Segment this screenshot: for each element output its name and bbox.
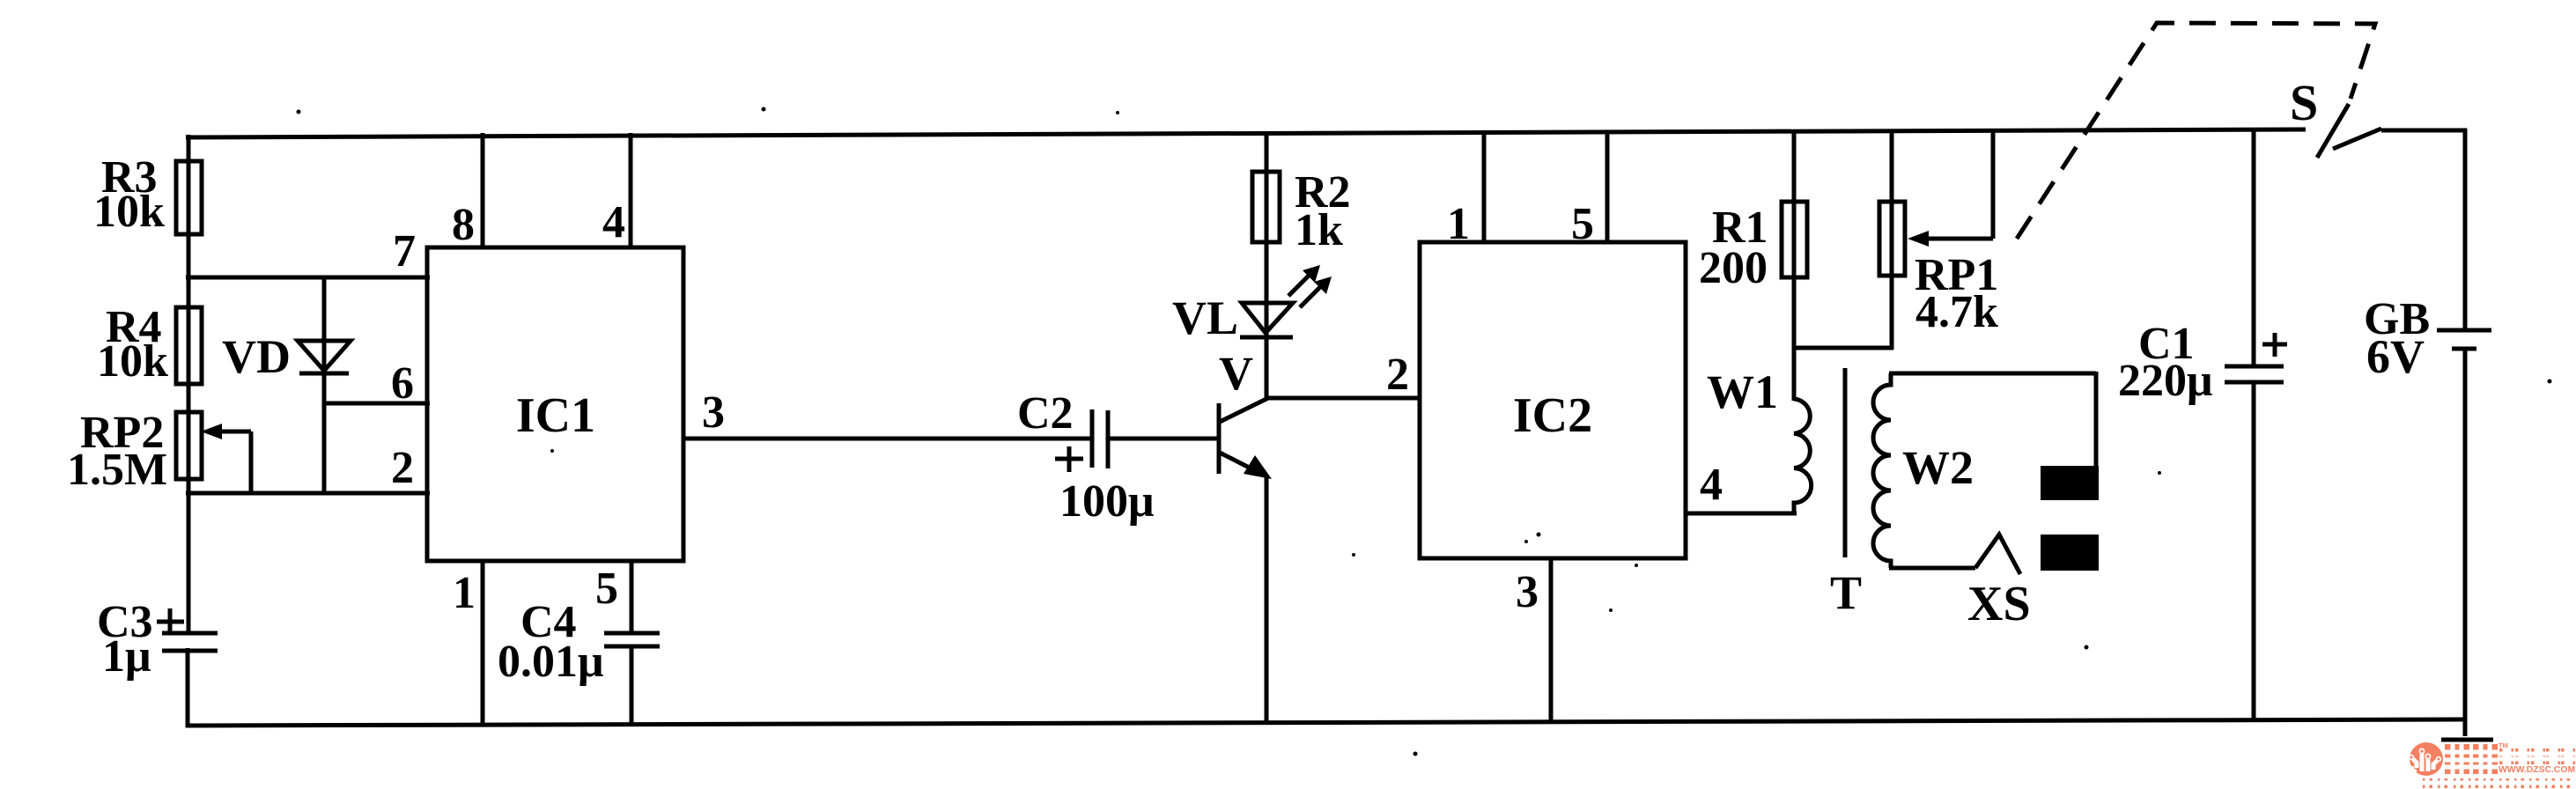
wire: IC1 pin 7 horizontal (186, 276, 430, 280)
svg-text:6: 6 (391, 358, 414, 409)
svg-text:4: 4 (602, 197, 625, 247)
plus sign of C3 (157, 620, 184, 624)
wire: IC2 pin 5 vertical (1605, 130, 1610, 242)
svg-text:V: V (1219, 347, 1253, 400)
wire: left vertical below C3 to ground rail (186, 648, 190, 727)
svg-text:5: 5 (595, 564, 618, 614)
svg-text:XS: XS (1967, 577, 2031, 631)
svg-text:1.5M: 1.5M (67, 445, 167, 495)
svg-text:IC1: IC1 (516, 388, 595, 443)
svg-text:VL: VL (1172, 291, 1238, 344)
capacitor C1 (2252, 129, 2256, 368)
wire: left vertical branch R3/R4/RP2 string (187, 135, 191, 635)
plus sign of C1 (2262, 343, 2287, 347)
dashed gang linkage (2017, 23, 2375, 239)
svg-text:100μ: 100μ (1059, 476, 1154, 527)
wire: W2 loop right (2094, 372, 2099, 468)
svg-text:WWW.DZSC.COM: WWW.DZSC.COM (2498, 765, 2575, 775)
battery GB (2463, 129, 2468, 329)
svg-text:10k: 10k (93, 187, 165, 237)
svg-text:3: 3 (1516, 567, 1539, 617)
socket XS blocks (2041, 466, 2099, 500)
wire: W2 loop bottom (1889, 566, 1975, 571)
wire: collector vertical to LED (1265, 337, 1269, 400)
svg-text:W2: W2 (1902, 441, 1974, 494)
wire: IC1 pin 6 horizontal (324, 402, 430, 406)
svg-text:1k: 1k (1295, 205, 1343, 255)
resistor R1 (1792, 129, 1797, 401)
IC op-amp U1 (IC1) (427, 247, 683, 561)
svg-text:10k: 10k (97, 336, 168, 387)
watermark logo circle (2410, 742, 2443, 776)
wire: IC1 pin 8 vertical (481, 133, 485, 247)
svg-text:8: 8 (452, 200, 475, 250)
LED arrows (1288, 272, 1312, 296)
svg-text:1: 1 (453, 568, 476, 618)
wire: top rail right segment to battery (2381, 129, 2467, 133)
svg-text:220μ: 220μ (2118, 356, 2212, 406)
wire: IC2 pin 3 vertical (1549, 558, 1554, 723)
transformer T core (1843, 368, 1848, 557)
wire: IC2 pin 1 vertical (1482, 130, 1487, 242)
watermark CJK subtitle blocks (2499, 748, 2575, 764)
wire: IC1 pin 4 vertical (629, 133, 633, 247)
plug XS caret (1975, 535, 2020, 574)
wire: bottom ground rail (186, 719, 2467, 726)
inductor W2 secondary winding (1873, 373, 1891, 568)
svg-text:S: S (2290, 74, 2318, 131)
svg-text:7: 7 (393, 226, 416, 277)
svg-text:5: 5 (1571, 199, 1594, 249)
wiper arrow of RP2 (249, 431, 254, 493)
wire: IC2 pin 2 horizontal (1266, 396, 1421, 401)
svg-text:4: 4 (1700, 460, 1723, 510)
capacitor C4 (604, 631, 660, 636)
wire: IC1 pin 5 vertical with C4 (630, 561, 634, 634)
svg-text:W1: W1 (1707, 365, 1778, 418)
svg-text:1: 1 (1447, 199, 1470, 249)
resistor R3 (176, 161, 202, 234)
wire: C2 to transistor base (1108, 437, 1217, 441)
svg-text:0.01μ: 0.01μ (498, 637, 603, 687)
wire: emitter vertical to ground rail (1265, 475, 1269, 724)
watermark tagline blocks (2423, 778, 2570, 788)
svg-text:1μ: 1μ (102, 631, 151, 682)
svg-text:2: 2 (1386, 350, 1409, 400)
wire: top supply rail (186, 129, 2306, 137)
potentiometer RP1 (1890, 129, 1894, 350)
wiper arrow of RP1 (1991, 129, 1996, 239)
switch S contact lead (2333, 129, 2381, 149)
svg-text:C2: C2 (1017, 388, 1074, 439)
wire: diode VD vertical anode (322, 277, 327, 493)
svg-text:4.7k: 4.7k (1915, 287, 1998, 337)
resistor R4 (176, 307, 202, 384)
svg-text:TM: TM (2498, 741, 2508, 749)
svg-text:2: 2 (391, 443, 414, 493)
wire: IC1 pin 2 horizontal (186, 491, 430, 496)
watermark CJK title blocks (2445, 744, 2498, 774)
capacitor C3 (162, 631, 218, 636)
svg-text:T: T (1830, 566, 1862, 619)
diode VD (298, 341, 351, 371)
scan speckles (297, 110, 301, 114)
IC U2 (IC2) (1420, 242, 1686, 558)
svg-text:3: 3 (702, 387, 725, 438)
transistor V (1217, 403, 1222, 474)
wire: IC1 pin 3 horizontal to C2 (683, 437, 1092, 441)
resistor R2 (1265, 131, 1269, 400)
plus sign of C2 (1055, 457, 1083, 461)
svg-text:IC2: IC2 (1513, 388, 1592, 443)
wire: IC2 pin 4 horizontal to W1 (1686, 512, 1797, 516)
wire: IC1 pin 1 vertical (481, 561, 485, 726)
wire: R1-RP1 join (1792, 346, 1893, 350)
wire: W2 loop top (1889, 372, 2096, 376)
capacitor C2 (1090, 409, 1095, 468)
switch S blade (2317, 104, 2349, 158)
svg-text:200: 200 (1699, 243, 1768, 293)
LED VL (1242, 303, 1293, 333)
svg-text:6V: 6V (2366, 330, 2425, 383)
svg-text:VD: VD (222, 330, 291, 383)
potentiometer RP2 (176, 412, 202, 479)
inductor W1 primary winding (1794, 399, 1812, 513)
